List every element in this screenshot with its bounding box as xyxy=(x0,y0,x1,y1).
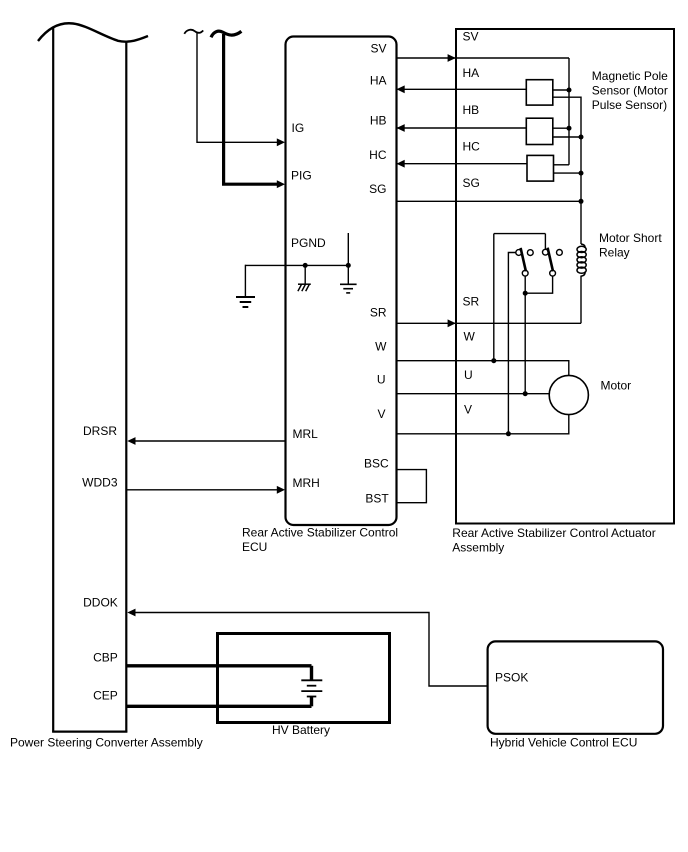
HV battery box xyxy=(218,634,390,723)
svg-text:SG: SG xyxy=(463,176,480,190)
wire commons to U xyxy=(524,293,526,394)
svg-text:HB: HB xyxy=(463,103,480,117)
wire PIG feed (thick) xyxy=(224,34,277,184)
wire SG bus vertical xyxy=(580,137,582,244)
arrow SV into actuator xyxy=(448,54,456,62)
motor M1 xyxy=(549,375,588,414)
wire U xyxy=(397,393,550,395)
svg-text:BSC: BSC xyxy=(364,457,389,471)
node PGND junction 2 xyxy=(346,263,351,268)
ECU box (Rear Active Stabilizer Control ECU) xyxy=(286,37,397,526)
arrow into DDOK xyxy=(127,609,135,617)
svg-text:PGND: PGND xyxy=(291,236,326,250)
svg-text:MRL: MRL xyxy=(293,427,319,441)
power steering converter assembly bus wave top xyxy=(38,23,148,41)
ground earth left xyxy=(236,297,255,307)
svg-text:Rear Active Stabilizer Control: Rear Active Stabilizer Control Actuator xyxy=(452,526,655,540)
wire SV sensor supply vertical xyxy=(568,58,570,165)
svg-text:Power Steering Converter Assem: Power Steering Converter Assembly xyxy=(10,736,203,750)
svg-text:CEP: CEP xyxy=(93,688,118,702)
svg-text:HA: HA xyxy=(463,66,480,80)
svg-text:HA: HA xyxy=(370,74,387,88)
sensor square 2 xyxy=(526,118,553,144)
svg-text:U: U xyxy=(377,373,386,387)
svg-text:U: U xyxy=(464,368,473,382)
ground earth right xyxy=(340,284,357,293)
ground chassis (hatched) xyxy=(298,284,311,291)
svg-text:Rear Active Stabilizer Control: Rear Active Stabilizer Control xyxy=(242,526,398,540)
sensor square 1 xyxy=(526,80,553,105)
relay contact circle sw2 right xyxy=(557,250,563,256)
wire SV xyxy=(397,57,570,59)
wire W xyxy=(397,361,569,376)
battery B1 lead top xyxy=(310,666,313,681)
svg-text:Motor: Motor xyxy=(601,379,632,393)
arrow into MRH xyxy=(277,486,285,494)
svg-text:Relay: Relay xyxy=(599,245,630,259)
wire sensor1 to SV bus xyxy=(553,89,569,91)
wire coil to SR xyxy=(580,276,582,324)
node U junction xyxy=(523,391,528,396)
svg-text:SR: SR xyxy=(370,305,387,319)
svg-text:V: V xyxy=(464,403,472,417)
svg-text:IG: IG xyxy=(292,121,305,135)
wire right ground drop xyxy=(347,265,349,284)
arrow HA into ECU xyxy=(397,85,405,93)
wire left ground drop xyxy=(244,265,246,297)
svg-text:WDD3: WDD3 xyxy=(82,475,118,489)
wire bus left vertical xyxy=(52,28,54,732)
relay contact circle sw1 common xyxy=(522,270,528,276)
svg-text:HC: HC xyxy=(463,140,481,154)
node commons junction xyxy=(523,291,528,296)
wire switch2 left contact drop xyxy=(544,234,546,250)
wire PGND ground rail xyxy=(245,264,348,266)
wire SR xyxy=(397,322,582,324)
wire DDOK from hybrid ECU xyxy=(133,613,488,687)
relay contact circle sw1 left xyxy=(516,250,522,256)
svg-text:Assembly: Assembly xyxy=(452,540,504,554)
wire HA xyxy=(397,88,527,90)
wire BSC-BST loop xyxy=(397,470,427,503)
relay contact circle sw2 left xyxy=(543,249,549,255)
svg-text:SR: SR xyxy=(463,295,480,309)
wire HC xyxy=(397,163,528,165)
node SG bus / sensor3 xyxy=(579,171,584,176)
svg-text:SG: SG xyxy=(369,182,386,196)
svg-text:HB: HB xyxy=(370,114,387,128)
wire PGND stub up xyxy=(347,233,349,265)
wire bus right vertical xyxy=(125,42,127,732)
svg-text:W: W xyxy=(375,339,387,353)
relay contact circle sw2 common xyxy=(550,270,556,276)
arrow into PIG pin xyxy=(277,180,285,188)
svg-text:Motor Short: Motor Short xyxy=(599,231,662,245)
wire switch1 left contact to V xyxy=(508,253,515,434)
relay contact circle sw1 right xyxy=(527,250,533,256)
svg-text:Hybrid Vehicle Control ECU: Hybrid Vehicle Control ECU xyxy=(490,736,637,750)
wire commons join xyxy=(525,276,552,293)
arrow HC into ECU xyxy=(397,160,405,168)
sensor square 3 xyxy=(527,155,554,181)
node V junction xyxy=(506,431,511,436)
arrow into DRSR xyxy=(127,437,135,445)
svg-text:HC: HC xyxy=(369,148,387,162)
node SV bus / sensor1 xyxy=(567,88,572,93)
svg-text:SV: SV xyxy=(370,42,386,56)
wire bus bottom xyxy=(52,730,127,732)
relay top rail xyxy=(494,233,546,235)
wire sensor1 to SG bus xyxy=(553,97,581,137)
svg-text:SV: SV xyxy=(463,29,479,43)
svg-text:CBP: CBP xyxy=(93,650,118,664)
wire MRL to DRSR xyxy=(133,440,286,442)
wire relay rail to W xyxy=(493,234,495,361)
PIG feed squiggle xyxy=(211,31,241,37)
svg-text:HV Battery: HV Battery xyxy=(272,723,330,737)
svg-text:DRSR: DRSR xyxy=(83,424,117,438)
node SV bus / sensor2 xyxy=(567,126,572,131)
wire sensor3 to SG bus xyxy=(554,172,582,174)
node W junction xyxy=(491,358,496,363)
wire sensor2 to SG bus xyxy=(553,136,581,138)
battery B1 lead bottom xyxy=(310,697,313,707)
wire CBP (thick) xyxy=(126,664,311,667)
wire sensor2 to SV bus xyxy=(553,127,569,129)
wire CEP (thick) xyxy=(126,705,311,708)
svg-text:DDOK: DDOK xyxy=(83,596,118,610)
arrow HB into ECU xyxy=(397,124,405,132)
svg-text:Magnetic Pole: Magnetic Pole xyxy=(592,69,668,83)
svg-text:PSOK: PSOK xyxy=(495,671,528,685)
node PGND junction 1 xyxy=(303,263,308,268)
svg-text:PIG: PIG xyxy=(291,168,312,182)
wire V xyxy=(397,415,569,434)
node SG junction xyxy=(579,199,584,204)
svg-text:W: W xyxy=(464,330,476,344)
svg-text:MRH: MRH xyxy=(293,476,320,490)
svg-text:ECU: ECU xyxy=(242,540,267,554)
wire IG feed xyxy=(197,33,278,142)
wire sensor3 to SV bus xyxy=(554,164,570,166)
battery B1 plates xyxy=(301,680,322,696)
hybrid vehicle control ECU box xyxy=(488,641,663,733)
relay blade sw1 xyxy=(521,248,526,271)
node SG bus / sensor2 xyxy=(579,135,584,140)
arrow into IG pin xyxy=(277,138,285,146)
actuator assembly box xyxy=(456,29,674,524)
arrow SR into actuator xyxy=(448,319,456,327)
svg-text:Pulse Sensor): Pulse Sensor) xyxy=(592,98,667,112)
svg-text:V: V xyxy=(377,407,385,421)
wire HB xyxy=(397,127,527,129)
IG feed squiggle xyxy=(184,30,203,34)
wire WDD3 to MRH xyxy=(126,489,278,491)
svg-text:Sensor (Motor: Sensor (Motor xyxy=(592,84,668,98)
wire SG xyxy=(397,200,582,202)
relay coil xyxy=(577,244,586,276)
relay blade sw2 xyxy=(548,248,553,272)
wire chassis ground drop xyxy=(304,265,306,284)
svg-text:BST: BST xyxy=(365,491,389,505)
